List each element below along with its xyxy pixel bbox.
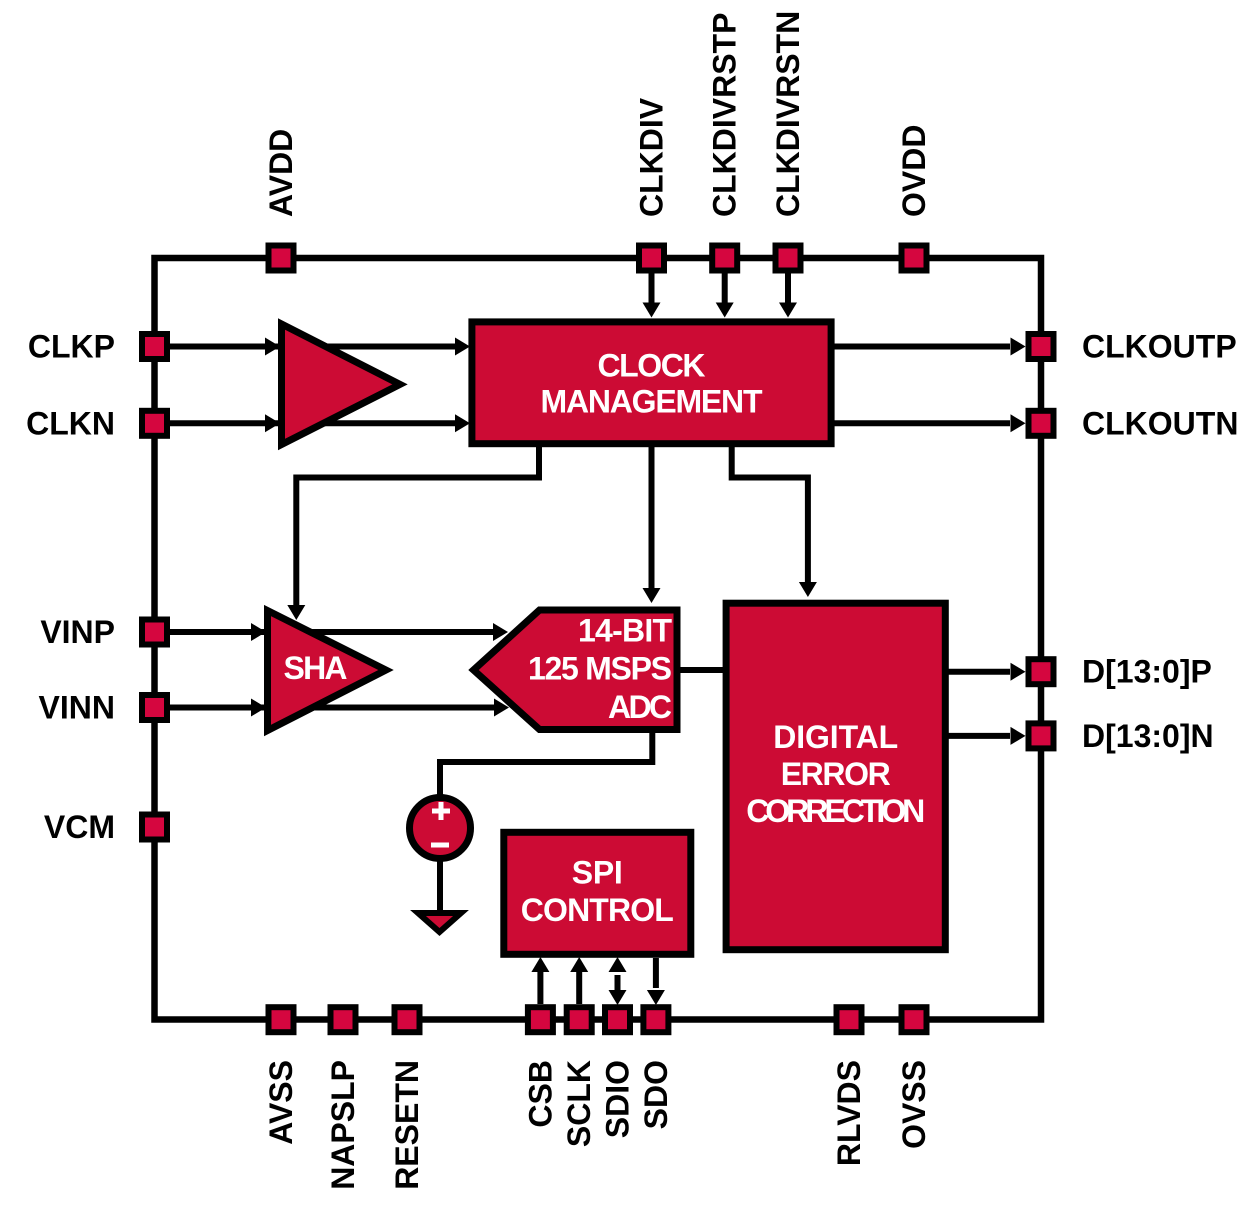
wire SCLK to SPI CONTROL bbox=[576, 970, 582, 1004]
wire CLKN to clock buffer and CLOCK MANAGEMENT bbox=[170, 420, 464, 426]
pad CLKDIVRSTN bbox=[776, 246, 801, 271]
svg-text:MANAGEMENT: MANAGEMENT bbox=[541, 384, 763, 420]
svg-text:RESETN: RESETN bbox=[389, 1060, 425, 1190]
svg-text:OVDD: OVDD bbox=[896, 125, 932, 217]
pad CLKDIV bbox=[639, 246, 664, 271]
wire CLOCK MANAGEMENT to CLKOUTP pad bbox=[832, 344, 1010, 350]
wire SDO from SPI CONTROL bbox=[653, 958, 659, 988]
svg-text:CLKOUTP: CLKOUTP bbox=[1082, 329, 1237, 365]
svg-text:VCM: VCM bbox=[44, 809, 115, 845]
pad SCLK bbox=[567, 1007, 592, 1032]
block SPI CONTROL bbox=[504, 832, 691, 954]
wire SDIO to SPI CONTROL (bidirectional) bbox=[615, 975, 621, 990]
svg-text:14-BIT: 14-BIT bbox=[578, 613, 672, 649]
svg-text:VINN: VINN bbox=[39, 690, 115, 726]
pad SDIO bbox=[605, 1007, 630, 1032]
pad OVSS bbox=[902, 1007, 927, 1032]
wire CLKP to clock buffer and CLOCK MANAGEMENT bbox=[170, 344, 464, 350]
svg-text:SDO: SDO bbox=[638, 1060, 674, 1129]
pad CLKP bbox=[142, 334, 167, 359]
svg-text:VINP: VINP bbox=[40, 614, 115, 650]
block 14-BIT 125 MSPS ADC (pentagon) bbox=[474, 610, 678, 730]
pad NAPSLP bbox=[331, 1007, 356, 1032]
svg-text:CLOCK: CLOCK bbox=[598, 348, 706, 384]
svg-text:125 MSPS: 125 MSPS bbox=[528, 651, 672, 687]
pad CLKN bbox=[142, 411, 167, 436]
wire DIGITAL ERROR CORRECTION to D[13:0]N pad bbox=[945, 733, 1010, 739]
svg-text:DIGITAL: DIGITAL bbox=[773, 719, 898, 755]
pad AVDD bbox=[269, 246, 294, 271]
pad RLVDS bbox=[837, 1007, 862, 1032]
pad D[13:0]P bbox=[1029, 659, 1054, 684]
block CLOCK MANAGEMENT bbox=[472, 322, 831, 444]
svg-text:D[13:0]P: D[13:0]P bbox=[1082, 654, 1212, 690]
wire VINN to SHA and ADC bbox=[170, 705, 495, 711]
svg-text:CORRECTION: CORRECTION bbox=[746, 793, 925, 829]
pad CLKDIVRSTP bbox=[712, 246, 737, 271]
wire CLKDIVRSTN into CLOCK MANAGEMENT bbox=[785, 270, 791, 312]
pad VCM bbox=[142, 815, 167, 840]
wire ADC output to DIGITAL ERROR CORRECTION bbox=[677, 667, 727, 673]
svg-text:CONTROL: CONTROL bbox=[521, 892, 674, 928]
svg-text:ERROR: ERROR bbox=[781, 756, 891, 792]
pad CSB bbox=[528, 1007, 553, 1032]
svg-text:AVDD: AVDD bbox=[263, 129, 299, 217]
svg-text:CLKDIVRSTN: CLKDIVRSTN bbox=[770, 11, 806, 217]
svg-text:CLKDIV: CLKDIV bbox=[634, 97, 670, 217]
pad CLKOUTN bbox=[1029, 411, 1054, 436]
svg-text:CLKN: CLKN bbox=[26, 405, 115, 441]
wire CLKDIV into CLOCK MANAGEMENT bbox=[649, 270, 655, 312]
clock input buffer (triangle) bbox=[282, 324, 401, 445]
svg-text:ADC: ADC bbox=[608, 689, 672, 725]
ground symbol bbox=[418, 913, 461, 932]
block DIGITAL ERROR CORRECTION bbox=[726, 603, 945, 950]
wire VINP to SHA and ADC bbox=[170, 629, 495, 635]
svg-text:SCLK: SCLK bbox=[561, 1060, 597, 1147]
wire CLOCK MANAGEMENT to DIGITAL ERROR CORRECTION clock input bbox=[732, 444, 808, 584]
pad SDO bbox=[643, 1007, 668, 1032]
svg-text:RLVDS: RLVDS bbox=[831, 1060, 867, 1166]
svg-text:SHA: SHA bbox=[284, 650, 348, 686]
pad AVSS bbox=[269, 1007, 294, 1032]
svg-text:CSB: CSB bbox=[522, 1060, 558, 1128]
pad OVDD bbox=[902, 246, 927, 271]
wire outer frame (power/ground ring) bbox=[155, 258, 1042, 1020]
svg-text:SDIO: SDIO bbox=[600, 1060, 636, 1138]
svg-text:OVSS: OVSS bbox=[896, 1060, 932, 1149]
wire CLOCK MANAGEMENT to CLKOUTN pad bbox=[832, 420, 1010, 426]
pad RESETN bbox=[395, 1007, 420, 1032]
wire DIGITAL ERROR CORRECTION to D[13:0]P pad bbox=[945, 669, 1010, 675]
svg-text:SPI: SPI bbox=[572, 855, 623, 891]
svg-text:AVSS: AVSS bbox=[263, 1060, 299, 1145]
pad VINN bbox=[142, 695, 167, 720]
svg-text:NAPSLP: NAPSLP bbox=[325, 1060, 361, 1190]
op-amp SHA (sample and hold amplifier triangle) bbox=[268, 611, 387, 731]
pad CLKOUTP bbox=[1029, 334, 1054, 359]
svg-text:CLKDIVRSTP: CLKDIVRSTP bbox=[707, 13, 743, 217]
svg-text:CLKP: CLKP bbox=[28, 329, 115, 365]
wire CLOCK MANAGEMENT to SHA clock input bbox=[296, 444, 539, 606]
wire CLOCK MANAGEMENT to ADC clock input bbox=[649, 444, 655, 590]
wire voltage source to ground bbox=[437, 858, 443, 912]
wire CLKDIVRSTP into CLOCK MANAGEMENT bbox=[722, 270, 728, 312]
voltage source V1 (+/-) bbox=[410, 798, 471, 859]
pad D[13:0]N bbox=[1029, 723, 1054, 748]
wire ADC reference input to voltage source bbox=[440, 730, 652, 796]
pad VINP bbox=[142, 620, 167, 645]
svg-text:D[13:0]N: D[13:0]N bbox=[1082, 718, 1214, 754]
svg-text:CLKOUTN: CLKOUTN bbox=[1082, 405, 1238, 441]
wire CSB to SPI CONTROL bbox=[537, 970, 543, 1004]
